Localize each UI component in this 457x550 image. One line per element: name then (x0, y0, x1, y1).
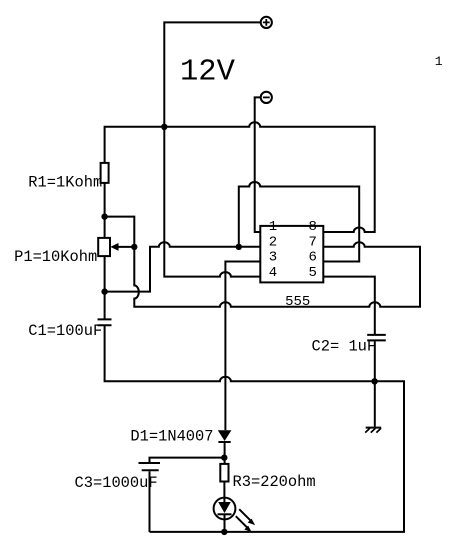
svg-text:2: 2 (269, 235, 277, 251)
svg-text:5: 5 (308, 265, 316, 281)
svg-text:C2= 1uF: C2= 1uF (312, 338, 377, 356)
svg-text:R1=1Kohm: R1=1Kohm (28, 174, 102, 192)
svg-text:C3=1000uF: C3=1000uF (75, 474, 158, 492)
svg-text:4: 4 (269, 265, 277, 281)
svg-text:555: 555 (285, 294, 310, 310)
svg-text:1: 1 (269, 219, 277, 235)
svg-text:D1=1N4007: D1=1N4007 (130, 427, 213, 445)
svg-text:P1=10Kohm: P1=10Kohm (14, 248, 97, 266)
svg-text:12V: 12V (180, 55, 236, 89)
svg-text:C1=100uF: C1=100uF (28, 322, 102, 340)
svg-text:1: 1 (435, 54, 443, 69)
svg-text:8: 8 (308, 219, 316, 235)
svg-text:6: 6 (308, 250, 316, 266)
svg-text:R3=220ohm: R3=220ohm (233, 473, 316, 491)
svg-text:3: 3 (269, 250, 277, 266)
svg-text:7: 7 (308, 235, 316, 251)
